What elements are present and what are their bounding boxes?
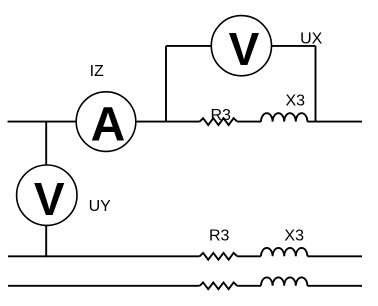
svg-text:IZ: IZ [90,63,104,80]
voltmeter UY circle [17,165,77,225]
voltmeter UX circle [211,16,271,76]
wire inductor to right end [307,121,362,123]
wire resistor to inductor [237,121,261,123]
resistor R3 (middle line) [200,253,238,260]
svg-text:R3: R3 [209,228,230,245]
wire ammeter right to resistor [136,121,200,123]
wire bottom line 2 left [8,285,200,287]
resistor R3 (bottom line) [200,282,238,289]
wire junction vertical to voltmeter branch [165,46,167,123]
svg-text:V: V [34,173,65,225]
svg-text:X3: X3 [286,92,306,109]
wire UY vertical bottom [45,225,47,257]
inductor X3 (upper circuit) [261,113,307,121]
resistor R3 (upper circuit) [200,118,238,125]
inductor X3 (bottom line) [261,277,307,285]
svg-text:V: V [229,23,260,75]
svg-text:X3: X3 [284,228,304,245]
inductor X3 (middle line) [261,248,307,256]
wire main line left segment [8,121,77,123]
svg-text:UY: UY [89,198,112,215]
ammeter A circle [76,92,136,152]
wire UY vertical top [45,122,47,166]
wire bottom line 2 right [307,285,362,287]
wire bottom line 2 mid [237,285,261,287]
wire voltmeter branch left [166,45,211,47]
wire voltmeter branch right [272,45,316,47]
wire bottom line 1 left [8,255,200,257]
wire bottom line 1 right [307,255,362,257]
svg-text:UX: UX [300,30,323,47]
svg-text:A: A [91,98,126,151]
svg-text:R3: R3 [211,107,232,124]
wire UX vertical [315,46,317,123]
wire bottom line 1 mid [237,255,261,257]
